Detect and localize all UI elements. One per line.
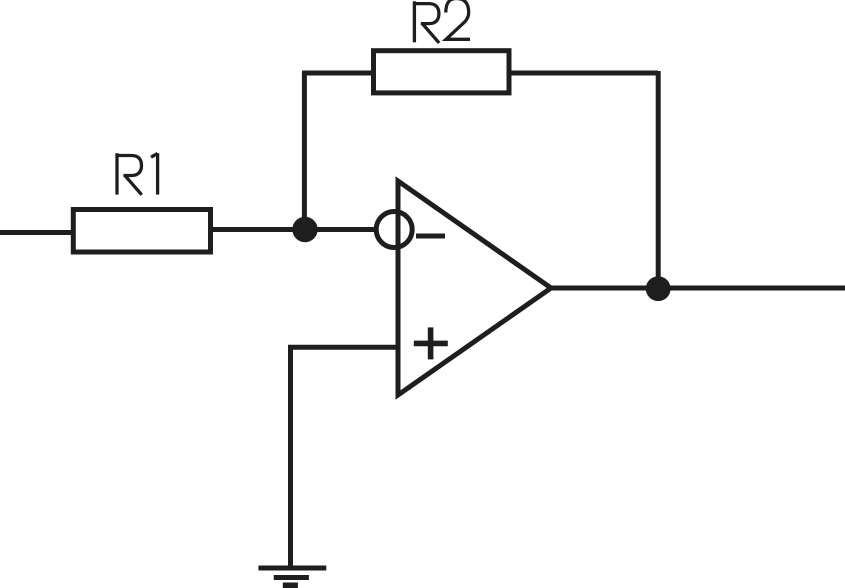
wire feedback vertical right (656, 71, 661, 288)
minus sign (416, 234, 445, 239)
wire input left (0, 230, 73, 235)
wire output (549, 286, 845, 291)
resistor R1 (73, 210, 210, 253)
label R2 (414, 0, 470, 43)
label R1 (117, 153, 158, 195)
wire non-inverting input (291, 347, 398, 568)
node A junction dot (292, 217, 317, 242)
ground (258, 568, 326, 585)
wire node A to bubble (316, 227, 377, 232)
inverting input bubble (376, 212, 412, 248)
resistor R2 (374, 51, 510, 93)
wire feedback top left (302, 71, 374, 76)
plus sign (414, 327, 448, 359)
wire R2 to right vertical (508, 71, 658, 76)
node B output junction dot (646, 276, 671, 301)
wire feedback vertical left (302, 73, 307, 232)
wire R1 to node A (211, 227, 307, 232)
op-amp U1 (398, 181, 551, 395)
